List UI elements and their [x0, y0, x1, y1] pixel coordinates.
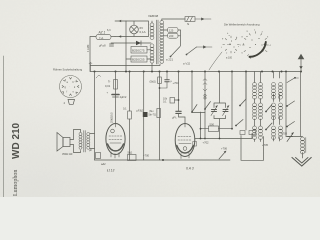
- switch K2: [235, 120, 243, 127]
- cap under AZ1: [110, 44, 114, 46]
- label on G: [173, 81, 180, 85]
- output transformer secondary: [87, 132, 90, 149]
- wire primary top: [151, 21, 153, 23]
- cap on rail: [89, 148, 101, 159]
- label +700: [143, 154, 150, 158]
- svg-text:μFλ: μFλ: [172, 116, 177, 120]
- lamp value: [140, 26, 146, 34]
- bus junctions: [94, 71, 303, 73]
- resistor on rail: [128, 151, 137, 161]
- wire drop H: [191, 72, 193, 113]
- coupling cap C8: [172, 111, 181, 119]
- label +702: [203, 141, 210, 145]
- speaker: [57, 133, 70, 152]
- loop plugs: [240, 131, 256, 135]
- rotary switch big ring: [243, 32, 269, 56]
- cathode rail: [95, 159, 231, 161]
- tube V2: [175, 124, 195, 157]
- resistor 5k lower: [157, 109, 161, 118]
- switch on M lower: [286, 101, 294, 107]
- svg-text:7+1: 7+1: [99, 36, 104, 40]
- svg-text:125: 125: [169, 28, 174, 32]
- wire drop K: [231, 72, 233, 129]
- pilot lamp: [130, 25, 139, 34]
- svg-text:4μF/2: 4μF/2: [120, 95, 127, 99]
- coil L3a: [272, 83, 276, 100]
- trimmer on rail: [219, 147, 228, 160]
- main bus: [91, 71, 302, 73]
- svg-text:Łt 13: Łt 13: [107, 169, 114, 173]
- trimmer bottom right: [281, 132, 294, 142]
- tube V1: [106, 124, 125, 155]
- wire drop G: [178, 72, 180, 111]
- coil L4b: [279, 103, 283, 120]
- trimmer cap 1: [211, 106, 218, 116]
- svg-text:+702: +702: [203, 141, 210, 145]
- wire drop N: [300, 72, 302, 137]
- svg-text:6,3: 6,3: [107, 29, 111, 32]
- svg-text:Lumophon: Lumophon: [13, 170, 19, 196]
- svg-text:+703: +703: [281, 132, 288, 136]
- V1 bottom arc: [108, 144, 124, 151]
- heater wire: [91, 64, 161, 66]
- coil L5: [301, 137, 305, 154]
- svg-text:+706: +706: [221, 147, 228, 151]
- selector leads: [164, 30, 181, 46]
- tube AZ1 outline: [96, 34, 111, 39]
- coil L2b: [259, 103, 263, 120]
- AC squiggle: [96, 75, 101, 78]
- antenna: [298, 54, 305, 72]
- svg-text:μF: μF: [89, 148, 92, 152]
- label a d2: [101, 162, 106, 166]
- svg-text:5kΩ: 5kΩ: [128, 151, 133, 155]
- lamp loop wires: [126, 21, 149, 37]
- spark gaps: [203, 79, 207, 92]
- wire drop L: [245, 72, 247, 131]
- resistor 500: [209, 123, 219, 132]
- V2 anode loop: [195, 112, 205, 139]
- svg-text:a 100: a 100: [226, 57, 233, 60]
- svg-text:μFΔΩ: μFΔΩ: [137, 109, 144, 113]
- svg-text:a V11: a V11: [183, 62, 191, 66]
- junction on rail: [162, 159, 164, 161]
- switch on K: [245, 72, 247, 100]
- rotary scatter contacts: [228, 36, 263, 48]
- resistor block lower: [131, 56, 147, 62]
- coil L2a: [259, 83, 263, 100]
- rotary small labels: [226, 57, 233, 60]
- label 1AMF: [86, 44, 90, 52]
- wire drop A: [94, 72, 96, 161]
- resistor 0.01: [105, 80, 117, 90]
- label 50mF: [99, 44, 106, 48]
- label Lumophon: [13, 170, 19, 196]
- svg-text:6 A 3: 6 A 3: [186, 167, 194, 171]
- blob cap on D: [143, 112, 148, 117]
- wire drop C: [129, 72, 131, 112]
- switch on M upper: [287, 77, 299, 83]
- coil L4a: [279, 83, 283, 100]
- leader curve: [209, 52, 222, 70]
- V2 internals: [178, 124, 192, 159]
- wire y43: [111, 42, 151, 44]
- tick at heater left: [89, 63, 92, 72]
- coil L1b: [253, 103, 257, 120]
- heater label: [183, 62, 191, 66]
- wire primary bottom to bus: [151, 63, 153, 72]
- label AZ1: [98, 31, 106, 35]
- svg-text:WD 210: WD 210: [11, 122, 22, 159]
- rotary caption: [224, 23, 260, 27]
- resistor 5k upper: [150, 77, 162, 84]
- wire mains drop: [125, 21, 127, 72]
- label cluster: [149, 110, 156, 117]
- svg-text:Röhren Sockelschaltung: Röhren Sockelschaltung: [53, 68, 83, 72]
- V1 internals: [109, 124, 122, 159]
- transformer label: [148, 14, 159, 18]
- wire secondary top / fuse line: [162, 19, 185, 21]
- ground: [292, 158, 311, 167]
- wire B plus: [205, 134, 252, 139]
- rotary switch small ring: [223, 36, 239, 53]
- wire drop F: [159, 72, 161, 161]
- link H-I: [192, 112, 205, 114]
- wire drop D: [143, 72, 145, 113]
- svg-text:5k+7Ω: 5k+7Ω: [149, 114, 156, 117]
- svg-text:0,01: 0,01: [105, 84, 111, 88]
- V1 label: [107, 169, 114, 173]
- rail right of AZ1: [111, 36, 115, 38]
- svg-text:0,1A: 0,1A: [140, 30, 146, 34]
- pin box under V2: [193, 142, 197, 147]
- output transformer core: [83, 131, 85, 153]
- speaker leads: [70, 130, 81, 153]
- wire drop M: [285, 72, 287, 137]
- svg-text:B250C55: B250C55: [132, 58, 145, 62]
- svg-text:500: 500: [210, 123, 215, 127]
- output transformer label: [62, 152, 73, 156]
- tuning gang frame: [214, 103, 226, 139]
- coil L3b: [272, 103, 276, 120]
- coil L5 lead: [302, 153, 304, 159]
- transformer T1 primary: [150, 23, 154, 63]
- coil L4c: [279, 126, 283, 139]
- svg-text:+704: +704: [173, 81, 180, 85]
- label 6,3V: [107, 29, 111, 32]
- cap drop: [160, 72, 168, 89]
- output transformer primary: [79, 132, 82, 149]
- coil leads right: [260, 72, 262, 142]
- mains stub arrow upper: [115, 20, 126, 22]
- page margin rule: [3, 56, 5, 197]
- svg-text:B250C75: B250C75: [132, 49, 145, 53]
- trimmer cap 2: [223, 106, 230, 116]
- svg-text:Die Wellenbereich Anordnung: Die Wellenbereich Anordnung: [224, 23, 260, 27]
- label WD 210: [11, 122, 22, 159]
- V2 bottom arc: [177, 146, 193, 153]
- socket caption: [53, 68, 83, 72]
- svg-text:0,1: 0,1: [163, 101, 167, 104]
- wire drop I: [204, 72, 206, 139]
- fuse Si: [185, 17, 195, 22]
- wire drop J: [219, 72, 221, 104]
- mains stub arrow lower: [115, 35, 126, 37]
- svg-text:VEB/48: VEB/48: [148, 14, 159, 18]
- coil L1a: [253, 83, 257, 100]
- resistor left of V2: [163, 98, 175, 104]
- wire to coil L5: [286, 136, 303, 138]
- transformer T1 secondary: [160, 21, 164, 64]
- coil L1c: [253, 126, 257, 139]
- label +705: [262, 143, 269, 147]
- wire 500: [201, 128, 233, 130]
- arrow end of fuse line: [195, 18, 211, 20]
- svg-text:+700: +700: [143, 154, 150, 158]
- lead: [126, 58, 151, 60]
- band switch 1: [265, 105, 272, 113]
- coil leads left: [254, 72, 256, 142]
- svg-text:a 221: a 221: [166, 58, 173, 62]
- rectifier B250 C75: [131, 47, 147, 54]
- voltage selector plugs: [168, 28, 179, 39]
- electrolytic C: [107, 92, 127, 100]
- AZ1 left lead: [90, 37, 96, 72]
- rectifier lead: [147, 49, 151, 51]
- socket key: [68, 100, 75, 105]
- switch on M third: [286, 122, 294, 128]
- svg-text:0,1: 0,1: [123, 107, 127, 111]
- svg-text:25kΩ(0,5: 25kΩ(0,5: [109, 112, 113, 123]
- V2 label: [186, 167, 194, 171]
- resistor on C: [128, 111, 132, 119]
- wire drop B: [115, 72, 117, 124]
- svg-text:220: 220: [169, 34, 174, 38]
- coil leads: [273, 72, 275, 142]
- tube socket: [60, 76, 82, 98]
- switch on I: [204, 102, 210, 110]
- svg-text:(5kΩ): (5kΩ): [150, 80, 157, 84]
- svg-text:μFω8: μFω8: [99, 44, 106, 48]
- diode D1: [136, 41, 141, 45]
- rotary wiper arc: [250, 42, 266, 57]
- mains switch: [170, 46, 212, 58]
- svg-text:Tr: Tr: [108, 80, 111, 84]
- coil L2c: [259, 126, 263, 139]
- feedback loop: [241, 136, 264, 161]
- transformer core: [156, 20, 158, 64]
- switch on H: [191, 105, 197, 113]
- switch label: [166, 58, 173, 62]
- grid lead V2: [179, 113, 186, 123]
- coil L3c: [272, 126, 276, 139]
- wire resistor to G: [175, 99, 179, 101]
- svg-text:AZ 1: AZ 1: [98, 31, 106, 35]
- svg-text:350Ω Ω0: 350Ω Ω0: [62, 152, 73, 156]
- svg-text:+705: +705: [262, 143, 269, 147]
- svg-text:1 AMF: 1 AMF: [86, 44, 90, 52]
- transformer leads to drop A: [90, 134, 95, 149]
- label 25k: [109, 112, 113, 123]
- band switch 2: [265, 123, 272, 130]
- svg-text:aΔ2: aΔ2: [101, 162, 106, 166]
